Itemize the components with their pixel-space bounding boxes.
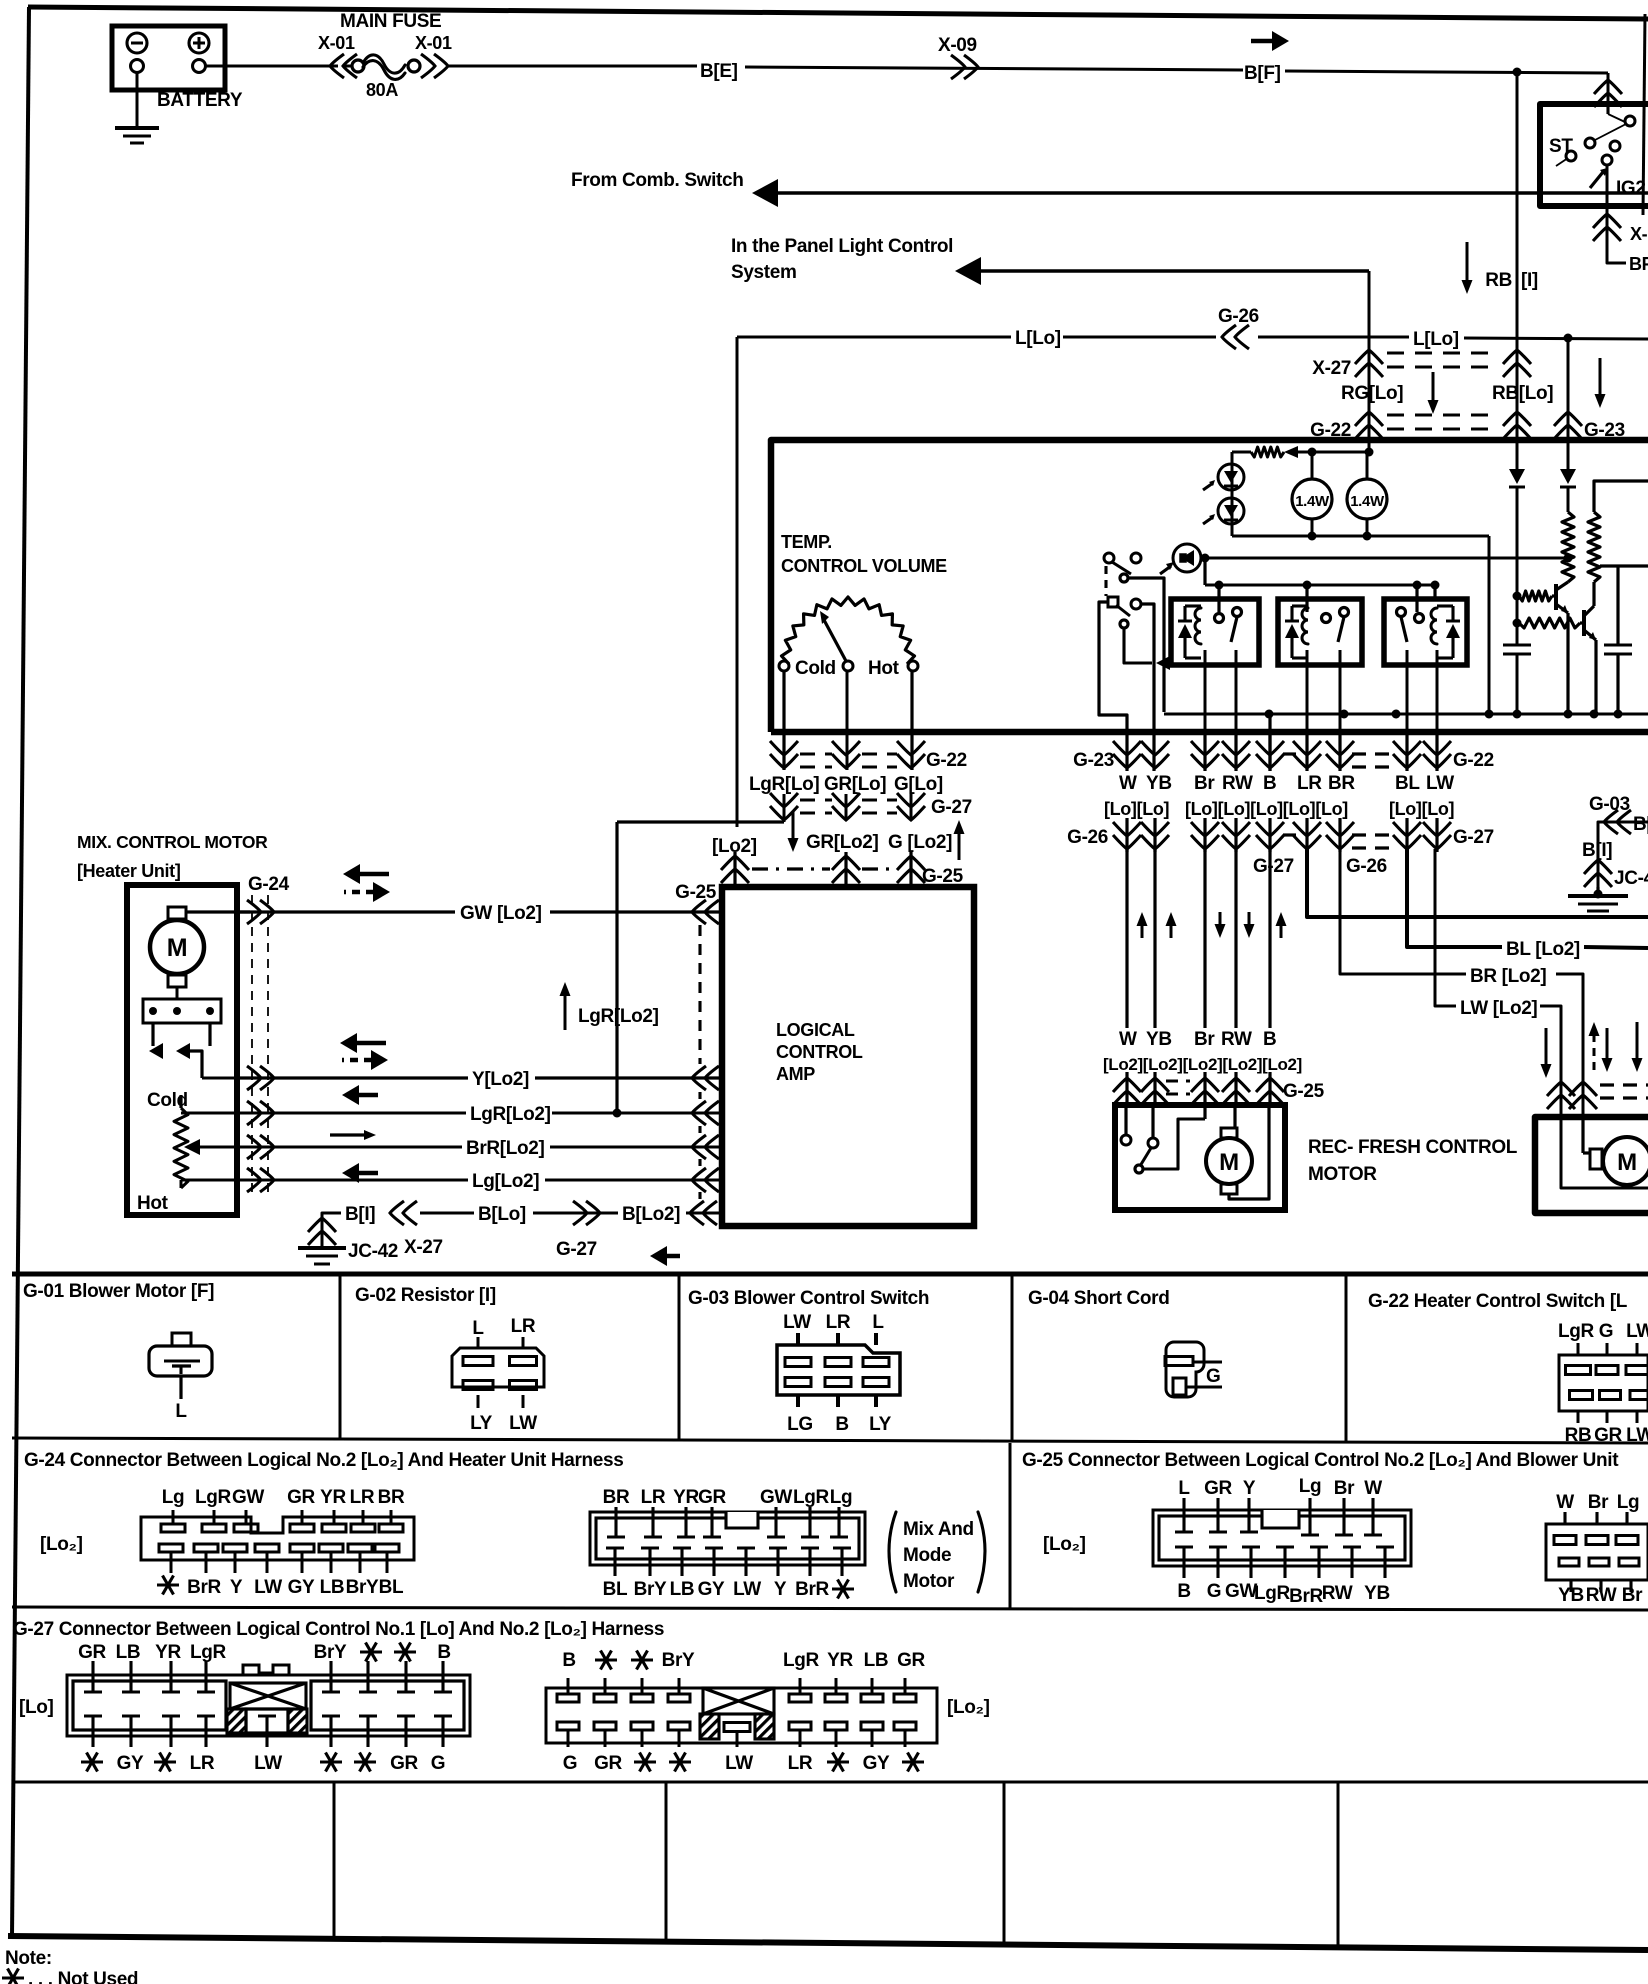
flow arrow right above B[F]	[1272, 31, 1289, 51]
svg-text:BrR: BrR	[1289, 1586, 1323, 1607]
wire LW inside blower	[1561, 1117, 1648, 1188]
svg-text:RB[Lo]: RB[Lo]	[1492, 383, 1553, 404]
svg-text:YR: YR	[320, 1487, 346, 1508]
svg-text:LgR[Lo]: LgR[Lo]	[749, 774, 819, 795]
relay RY3 box	[1384, 599, 1467, 665]
arrow panel light wire	[955, 257, 981, 285]
wire R3 top	[1594, 481, 1648, 512]
svg-text:GY: GY	[288, 1577, 315, 1598]
svg-text:LW: LW	[254, 1753, 282, 1774]
svg-text:G: G	[1206, 1366, 1220, 1387]
labels G-24L bottom	[157, 1583, 179, 1586]
svg-text:G-27: G-27	[556, 1239, 597, 1260]
wire Br down	[1203, 849, 1206, 1028]
G-27L X box	[230, 1683, 306, 1709]
svg-text:G-02 Resistor [I]: G-02 Resistor [I]	[355, 1285, 496, 1306]
connector G-25 dash-dot temp	[752, 867, 830, 870]
wire BR turn right	[1340, 849, 1466, 974]
svg-text:LR: LR	[1297, 773, 1322, 794]
wire W down	[1125, 849, 1128, 1028]
svg-text:80A: 80A	[366, 80, 398, 100]
svg-text:1.4W: 1.4W	[1295, 493, 1330, 510]
svg-text:G: G	[431, 1753, 445, 1774]
wires through G-22 connector	[1203, 732, 1206, 771]
wire ignition IG2 output	[1606, 165, 1609, 253]
svg-text:GR: GR	[287, 1487, 315, 1508]
wire LgR cont	[552, 1112, 722, 1115]
wire LgR riser	[615, 822, 618, 1113]
LED D1 arrow	[1203, 483, 1213, 490]
relay RY1 contacts	[1215, 614, 1224, 623]
svg-text:LR: LR	[190, 1753, 215, 1774]
relay RY3 wires	[1415, 585, 1418, 612]
connector G-25 main symbol	[1153, 1510, 1411, 1566]
svg-text:G-25: G-25	[922, 866, 964, 887]
svg-text:G-27: G-27	[1253, 856, 1294, 877]
svg-text:LgR: LgR	[195, 1487, 232, 1508]
connector G-22 symbol	[1559, 1355, 1648, 1411]
svg-text:G: G	[1207, 1581, 1221, 1602]
svg-text:System: System	[731, 262, 797, 283]
wire G-03 stub	[1598, 822, 1648, 888]
connector G-25 blower symbol	[1546, 1524, 1648, 1580]
svg-text:MAIN FUSE: MAIN FUSE	[340, 11, 441, 32]
svg-text:G-24 Connector Between Logical: G-24 Connector Between Logical No.2 [Lo₂…	[24, 1450, 623, 1471]
flow arrow up dashed blower	[1593, 1034, 1596, 1070]
LED D2 arrow	[1203, 517, 1213, 524]
svg-text:L[Lo]: L[Lo]	[1015, 328, 1061, 349]
connector G-25 chevrons B row	[690, 1201, 717, 1225]
wire LED column	[1231, 452, 1234, 536]
svg-text:BR: BR	[603, 1487, 630, 1508]
wire BR continue	[1556, 974, 1583, 1117]
wire L[Lo] horizontal	[737, 336, 1011, 339]
svg-text:YB: YB	[1146, 1029, 1172, 1050]
connector G-25 chevrons BrR	[692, 1135, 719, 1159]
svg-text:GR: GR	[594, 1753, 622, 1774]
buzzer adjust arrow	[1160, 566, 1171, 574]
connector G-27 left symbol	[67, 1675, 470, 1736]
wires into amp top	[733, 852, 736, 887]
ground GND3	[298, 1246, 346, 1250]
svg-text:GW: GW	[760, 1487, 792, 1508]
relay RY1 diode	[1178, 624, 1192, 638]
G-27L top notch	[243, 1665, 289, 1675]
svg-text:RW: RW	[1222, 773, 1253, 794]
motor M1	[150, 920, 204, 974]
connector G-25 chevrons GW	[692, 900, 719, 924]
wire W from switch	[1099, 602, 1127, 771]
svg-text:CONTROL: CONTROL	[776, 1042, 863, 1062]
wire RW into rec box	[1233, 1105, 1236, 1128]
svg-text:1.4W: 1.4W	[1350, 493, 1385, 510]
connector G-04 symbol	[1166, 1342, 1204, 1397]
svg-text:GW: GW	[1225, 1581, 1257, 1602]
svg-text:[Lo₂]: [Lo₂]	[40, 1534, 83, 1555]
rec-fresh control motor box	[1115, 1105, 1285, 1210]
svg-text:GY: GY	[117, 1753, 144, 1774]
wires to G-25 REC chevrons	[1125, 1072, 1128, 1105]
connector G-01 symbol	[149, 1346, 212, 1376]
svg-text:W: W	[1119, 773, 1137, 794]
svg-text:GR[Lo]: GR[Lo]	[824, 774, 886, 795]
wire motor bottom	[176, 987, 179, 999]
table top border	[12, 1272, 1648, 1277]
wire L branch vertical	[1567, 338, 1570, 468]
svg-text:BL: BL	[379, 1577, 404, 1598]
junction dot RB branch	[1513, 68, 1522, 77]
svg-text:BrY: BrY	[662, 1650, 695, 1671]
svg-text:LR: LR	[826, 1312, 851, 1333]
svg-text:LR: LR	[511, 1316, 536, 1337]
rec motor switch blade	[1140, 1148, 1151, 1166]
svg-text:Cold: Cold	[795, 658, 836, 679]
lamp L2 1.4W	[1347, 479, 1387, 519]
svg-text:[Heater Unit]: [Heater Unit]	[77, 861, 180, 881]
wire G from Hot terminal	[910, 671, 913, 770]
svg-text:L: L	[472, 1318, 484, 1339]
buzzer BZ1	[1173, 544, 1201, 572]
battery positive post	[193, 60, 206, 73]
svg-text:BL: BL	[603, 1579, 628, 1600]
svg-text:LW: LW	[1426, 773, 1454, 794]
svg-text:YB: YB	[1558, 1585, 1584, 1606]
svg-text:G-04 Short Cord: G-04 Short Cord	[1028, 1288, 1169, 1309]
flow arrow down blower3	[1636, 1022, 1639, 1060]
svg-text:JC-4: JC-4	[1614, 868, 1648, 889]
ignition switch contacts	[1625, 116, 1635, 126]
capacitor C2	[1604, 644, 1632, 647]
ground GND1	[115, 126, 159, 130]
svg-text:B[F]: B[F]	[1244, 63, 1281, 84]
battery negative post	[131, 60, 144, 73]
svg-text:Lg: Lg	[1299, 1476, 1322, 1497]
relay feed bus	[1205, 584, 1435, 587]
svg-text:LR: LR	[350, 1487, 375, 1508]
wire drop to ignition switch	[1607, 73, 1610, 104]
svg-text:G-27: G-27	[931, 797, 972, 818]
svg-text:JC-42: JC-42	[348, 1241, 398, 1262]
LED D1	[1218, 464, 1244, 490]
flow arrow down between rows	[1432, 372, 1435, 402]
flow arrow left B row	[650, 1246, 667, 1266]
svg-text:X-01: X-01	[318, 33, 355, 53]
ignition switch SW1 box	[1540, 104, 1648, 206]
svg-text:G-23: G-23	[1073, 750, 1114, 771]
flow arrow up LgR	[564, 994, 567, 1030]
svg-text:BF: BF	[1629, 254, 1648, 274]
table row divider 2	[12, 1607, 1648, 1610]
relay RY2 contacts	[1322, 614, 1331, 623]
svg-text:G: G	[1599, 1321, 1613, 1342]
connector G-27 dashes row2	[1352, 833, 1396, 836]
connector X-27 chevron RG	[1355, 350, 1383, 377]
flow arrowhead on wire	[1156, 656, 1170, 670]
wire LW turn right	[1435, 849, 1456, 1006]
svg-text:RW: RW	[1221, 1029, 1252, 1050]
svg-text:B: B	[835, 1414, 848, 1435]
wire BrR [Lo2]	[237, 1146, 462, 1149]
connector G-24 right symbol	[590, 1512, 865, 1565]
svg-text:RG[Lo]: RG[Lo]	[1341, 383, 1403, 404]
heater control switch box	[771, 440, 1648, 732]
svg-text:LgR: LgR	[783, 1650, 820, 1671]
svg-text:GR: GR	[698, 1487, 726, 1508]
svg-text:B: B	[1263, 773, 1276, 794]
wire GR from wiper terminal	[846, 671, 849, 770]
relay RY3 extra feed	[1433, 585, 1436, 599]
svg-text:LB: LB	[670, 1579, 695, 1600]
wire Y cont	[535, 1076, 722, 1079]
wire Br into rec box	[1203, 1105, 1206, 1119]
svg-text:W: W	[1556, 1492, 1574, 1513]
svg-text:Y: Y	[774, 1579, 787, 1600]
svg-text:. . . Not Used: . . . Not Used	[28, 1969, 138, 1984]
svg-text:BrY: BrY	[346, 1577, 379, 1598]
svg-text:X-09: X-09	[938, 35, 977, 56]
wires temp to G-25 row	[844, 852, 847, 887]
svg-text:GR: GR	[1594, 1425, 1622, 1446]
svg-text:Br: Br	[1194, 1029, 1215, 1050]
wires between label rows	[1125, 818, 1128, 852]
wire YB from switch	[1141, 604, 1154, 771]
svg-text:ST: ST	[1549, 136, 1573, 157]
svg-text:G-25: G-25	[675, 882, 717, 903]
svg-text:From Comb. Switch: From Comb. Switch	[571, 170, 743, 191]
svg-text:LB: LB	[864, 1650, 889, 1671]
connector G-22 chevron RB	[1503, 412, 1531, 439]
connector G-25 chevrons Y	[692, 1066, 719, 1090]
internal ground bus	[1164, 713, 1648, 716]
svg-text:LgR[Lo2]: LgR[Lo2]	[578, 1006, 659, 1027]
flow arrows top pair	[343, 864, 360, 884]
svg-text:In the Panel Light Control: In the Panel Light Control	[731, 236, 953, 257]
wire GW [Lo2]	[237, 910, 455, 913]
connector dashes blower	[1600, 1083, 1648, 1086]
connector G-22 chevrons temp	[770, 741, 798, 768]
wire LgR out	[181, 1112, 237, 1115]
connector G-25 left dashed boundary	[698, 925, 701, 1064]
svg-text:LW: LW	[733, 1579, 761, 1600]
svg-text:BATTERY: BATTERY	[157, 90, 243, 111]
svg-text:Motor: Motor	[903, 1571, 955, 1592]
page frame top border	[28, 7, 1648, 19]
svg-text:LG: LG	[787, 1414, 813, 1435]
flow arrow down blower1	[1545, 1028, 1548, 1066]
table column divider row2	[1009, 1443, 1012, 1608]
svg-text:[Lo][Lo][Lo][Lo][Lo]: [Lo][Lo][Lo][Lo][Lo]	[1185, 799, 1348, 819]
wire Q2 collector right	[1600, 564, 1648, 567]
svg-text:LW: LW	[1626, 1425, 1648, 1446]
arrowhead on rail	[1284, 446, 1298, 458]
svg-text:B: B	[437, 1642, 450, 1663]
svg-text:M: M	[1617, 1149, 1637, 1176]
switch SW-A mechanical link	[1104, 566, 1107, 596]
svg-text:G-25: G-25	[1283, 1081, 1325, 1102]
wire BL continue	[1584, 947, 1648, 948]
svg-text:LR: LR	[788, 1753, 813, 1774]
connector X-27 dashes	[1387, 352, 1499, 355]
lamp L1 wire	[1311, 452, 1314, 536]
connector X chevrons at ignition input	[1594, 80, 1622, 107]
connector G-24 dashed lines	[251, 895, 253, 1196]
svg-text:G-22: G-22	[1453, 750, 1494, 771]
wire Y out	[202, 1077, 237, 1080]
wire YB into rec box	[1151, 1105, 1154, 1138]
ground G2	[1594, 890, 1603, 899]
table row divider 1	[12, 1438, 1648, 1443]
relay RY3 contacts	[1415, 614, 1424, 623]
connector G-27 chevrons temp	[770, 793, 798, 820]
labels G-27L bottom	[81, 1760, 103, 1763]
svg-text:BrY: BrY	[634, 1579, 667, 1600]
svg-text:BrR: BrR	[795, 1579, 829, 1600]
flow arrow small left1	[342, 1085, 359, 1105]
motor M2	[1206, 1138, 1252, 1184]
connector G-23 chevrons W YB	[1113, 741, 1141, 768]
svg-text:LW: LW	[725, 1753, 753, 1774]
svg-text:Br: Br	[1334, 1478, 1355, 1499]
svg-text:W: W	[1119, 1029, 1137, 1050]
wire B into amp	[686, 1212, 722, 1215]
svg-text:BR: BR	[1328, 773, 1355, 794]
mix control motor box	[127, 885, 237, 1215]
svg-text:G-03 Blower Control Switch: G-03 Blower Control Switch	[688, 1288, 929, 1309]
svg-text:L[Lo]: L[Lo]	[1413, 329, 1459, 350]
svg-text:BL: BL	[1395, 773, 1420, 794]
battery positive terminal symbol	[189, 33, 209, 53]
label Mix And Mode Motor	[889, 1512, 896, 1592]
svg-text:TEMP.: TEMP.	[781, 532, 832, 552]
svg-text:GR: GR	[1204, 1478, 1232, 1499]
connector X-01 left arrows	[330, 54, 357, 78]
temp control wiper arm	[824, 620, 846, 661]
relay RY1 box	[1171, 599, 1259, 665]
connector G-02 symbol	[452, 1348, 544, 1387]
svg-text:B[E]: B[E]	[700, 61, 738, 82]
connector G-25 chevrons LgR	[692, 1101, 719, 1125]
svg-text:BrR: BrR	[187, 1577, 221, 1598]
label not used	[2, 1976, 24, 1979]
connector G-22 dashes under box	[1352, 752, 1396, 755]
connector G-27 right symbol	[546, 1688, 937, 1743]
connector G-22 chevrons under box	[1191, 741, 1219, 768]
diode D3 on RB line	[1509, 469, 1525, 484]
svg-text:G-26: G-26	[1067, 827, 1108, 848]
svg-text:Mix And: Mix And	[903, 1519, 974, 1540]
connector G-24 chevrons	[247, 900, 274, 924]
wire YB down	[1153, 849, 1156, 1028]
svg-text:Lg: Lg	[1617, 1492, 1640, 1513]
resistor R6 mix	[179, 1095, 182, 1108]
svg-text:[I]: [I]	[1521, 270, 1538, 291]
svg-text:YR: YR	[155, 1642, 181, 1663]
switch SW-B	[1108, 597, 1118, 607]
connector G-27 dashes temp	[800, 799, 832, 802]
svg-text:M: M	[167, 934, 187, 962]
svg-text:LW: LW	[783, 1312, 811, 1333]
svg-text:LgR: LgR	[1558, 1321, 1595, 1342]
svg-text:RB: RB	[1485, 270, 1512, 291]
connector G-03 chevrons	[1604, 810, 1631, 834]
internal rail top	[1232, 451, 1251, 454]
LED D2	[1218, 498, 1244, 524]
page frame right border segment	[1643, 14, 1645, 215]
connector G-03 symbol	[777, 1345, 900, 1395]
wire RG[I] vertical	[1368, 271, 1371, 452]
flow arrow down blower2	[1606, 1028, 1609, 1060]
rec motor blade wire	[1143, 1119, 1205, 1169]
wire B from bus	[1268, 714, 1271, 771]
wire Y [Lo2]	[237, 1076, 468, 1079]
wire Lg cont	[545, 1179, 722, 1182]
resistor R4 base Q1	[1519, 591, 1552, 601]
svg-text:BR [Lo2]: BR [Lo2]	[1470, 966, 1546, 987]
page bottom border	[8, 1936, 1648, 1950]
svg-text:B[Lo]: B[Lo]	[478, 1204, 526, 1225]
svg-text:Y: Y	[1243, 1478, 1256, 1499]
svg-text:Hot: Hot	[868, 658, 900, 679]
svg-text:B[I]: B[I]	[345, 1204, 375, 1225]
svg-text:RW: RW	[1586, 1585, 1617, 1606]
svg-text:LW: LW	[1626, 1321, 1648, 1342]
svg-text:G-26: G-26	[1218, 306, 1259, 327]
relay RY1 coil	[1195, 608, 1201, 644]
wire LgR [Lo2]	[237, 1112, 466, 1115]
connector G-27 chevrons B row	[573, 1201, 600, 1225]
svg-text:LgR: LgR	[793, 1487, 830, 1508]
svg-text:GR: GR	[897, 1650, 925, 1671]
svg-text:L: L	[872, 1312, 884, 1333]
logical control amp U1 box	[722, 887, 974, 1226]
connector JC-42 chevron	[308, 1218, 336, 1245]
svg-text:CONTROL VOLUME: CONTROL VOLUME	[781, 556, 947, 576]
battery negative terminal symbol	[127, 33, 147, 53]
svg-text:[Lo₂]: [Lo₂]	[1043, 1534, 1086, 1555]
svg-text:LY: LY	[869, 1414, 892, 1435]
motor M3	[1603, 1137, 1648, 1185]
diode D4 on L line	[1560, 469, 1576, 484]
svg-text:LB: LB	[320, 1577, 345, 1598]
wiper arrows	[149, 1043, 163, 1059]
svg-text:Mode: Mode	[903, 1545, 951, 1566]
resistor R1 internal	[1251, 447, 1284, 457]
svg-text:Br: Br	[1588, 1492, 1609, 1513]
svg-text:[Lo][Lo]: [Lo][Lo]	[1104, 799, 1169, 819]
svg-text:G-22: G-22	[926, 750, 967, 771]
resistor R2 vertical	[1562, 512, 1574, 582]
connector X chevrons at ignition output	[1593, 214, 1621, 241]
junction dot L line	[1564, 334, 1573, 343]
connector X-27 chevrons B row	[390, 1201, 417, 1225]
page frame left border	[12, 7, 29, 1937]
flow arrow down right	[1599, 358, 1602, 396]
svg-text:B: B	[562, 1650, 575, 1671]
svg-text:G-01 Blower Motor [F]: G-01 Blower Motor [F]	[23, 1281, 214, 1302]
arrow from comb switch wire	[752, 179, 778, 207]
svg-text:YR: YR	[673, 1487, 699, 1508]
internal rail bottom	[1232, 535, 1489, 538]
svg-text:Br: Br	[1194, 773, 1215, 794]
svg-text:Y: Y	[230, 1577, 243, 1598]
svg-text:G-24: G-24	[248, 874, 290, 895]
connector G-26 chevrons on L line	[1222, 325, 1249, 349]
svg-text:W: W	[1364, 1478, 1382, 1499]
relay RY3 diode	[1446, 624, 1460, 638]
wire rail bottom drop	[1488, 536, 1491, 714]
svg-text:LgR: LgR	[190, 1642, 227, 1663]
ignition rotor arrow	[1590, 172, 1603, 188]
